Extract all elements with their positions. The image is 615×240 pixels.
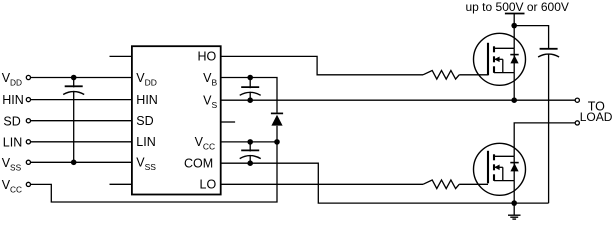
wire HIN terminal to IC [31, 99, 132, 101]
capacitor C4 curved plate [538, 54, 559, 57]
wire Q1 source to switch node [513, 73, 515, 101]
stub NC right of IC [221, 121, 235, 123]
wire HV bar to Q1 drain [513, 14, 515, 49]
terminal TO LOAD lower open circle [575, 121, 579, 125]
wire COM pin to ground rail [221, 163, 515, 203]
wire Q2 source to ground [513, 181, 515, 204]
terminal SD open circle [26, 119, 30, 123]
svg-text:up to 500V or 600V: up to 500V or 600V [466, 0, 569, 14]
node COM-C3 junction [247, 160, 253, 166]
wire R1 to Q1 gate [459, 74, 488, 76]
capacitor C1 lead VDD to VSS [73, 78, 75, 163]
IC U1 gate driver box [132, 46, 221, 194]
svg-text:SD: SD [136, 114, 153, 128]
terminal VCC open circle [26, 182, 30, 186]
svg-text:LOAD: LOAD [580, 110, 613, 124]
terminal VDD open circle [26, 75, 30, 79]
svg-text:SD: SD [3, 114, 20, 128]
ground symbol [508, 203, 521, 219]
wire VCC terminal under-route to VCC pin net [31, 142, 277, 202]
capacitor C3 top plate [241, 149, 259, 151]
wire VDD terminal to IC [31, 77, 132, 79]
terminal VSS open circle [26, 160, 30, 164]
stub HO left of IC [110, 55, 132, 57]
terminal TO LOAD upper open circle [575, 98, 579, 102]
terminal HIN open circle [26, 98, 30, 102]
capacitor C2 lead VB to VS [249, 78, 251, 101]
node VDD-C1 junction [71, 75, 77, 81]
node VCC-C3 junction [247, 139, 253, 145]
wire SD terminal to IC [31, 120, 132, 122]
node HV bus junction [511, 23, 517, 29]
wire LO pin to gate resistor R2 [221, 183, 423, 185]
node switch node junction [511, 97, 517, 103]
node VB-C2 junction [247, 75, 253, 81]
svg-text:LIN: LIN [3, 135, 22, 149]
svg-text:VDD: VDD [2, 71, 22, 88]
capacitor C1 white gap mask [63, 87, 84, 90]
svg-text:VCC: VCC [2, 178, 22, 195]
svg-text:LO: LO [200, 178, 217, 192]
transistor Q1 high-side MOSFET [474, 33, 526, 85]
capacitor C2 curved plate [240, 92, 261, 95]
wire LIN terminal to IC [31, 141, 132, 143]
terminal LIN open circle [26, 140, 30, 144]
node VS-C2 junction [247, 97, 253, 103]
wire HO pin to gate resistor R1 [221, 56, 423, 74]
capacitor C1 top plate [65, 85, 83, 87]
svg-text:HIN: HIN [2, 93, 24, 107]
stub LO left of IC [110, 183, 132, 185]
wire VB pin to bootstrap diode [221, 78, 277, 113]
wire ground rail right segment [514, 202, 548, 204]
diode D1 bootstrap triangle [271, 115, 282, 126]
wire VCC pin to node [221, 141, 277, 143]
HV supply terminal bar [505, 13, 525, 15]
wire HV node to bus capacitor C4 [514, 26, 548, 48]
node VSS-C1 junction [71, 160, 77, 166]
capacitor C3 curved plate [240, 156, 261, 159]
node ground junction [511, 200, 517, 206]
capacitor C3 white gap mask [240, 152, 261, 155]
wire C4 to ground rail [548, 54, 550, 203]
transistor Q2 low-side MOSFET [474, 143, 526, 195]
capacitor C1 curved plate [63, 92, 84, 95]
wire VS pin to switch node and load [221, 99, 576, 101]
svg-text:HIN: HIN [136, 93, 158, 107]
wire load return to Q2 drain [514, 123, 575, 156]
capacitor C4 top plate [540, 48, 558, 50]
capacitor C2 top plate [241, 86, 259, 88]
wire R2 to Q2 gate [459, 183, 488, 185]
svg-text:LIN: LIN [136, 135, 155, 149]
capacitor C2 white gap mask [240, 88, 261, 91]
resistor R2 (low side gate) [423, 180, 459, 189]
diode D1 bootstrap cathode bar [271, 112, 283, 114]
svg-text:HO: HO [197, 50, 216, 64]
wire diode anode to VCC node [276, 126, 278, 142]
resistor R1 (high side gate) [423, 71, 459, 80]
svg-text:VSS: VSS [2, 156, 22, 173]
capacitor C4 white gap mask [538, 50, 559, 53]
capacitor C3 lead VCC to COM [249, 142, 251, 163]
node VCC junction [274, 139, 280, 145]
wire VSS terminal to IC [31, 161, 132, 163]
svg-text:COM: COM [184, 156, 213, 170]
